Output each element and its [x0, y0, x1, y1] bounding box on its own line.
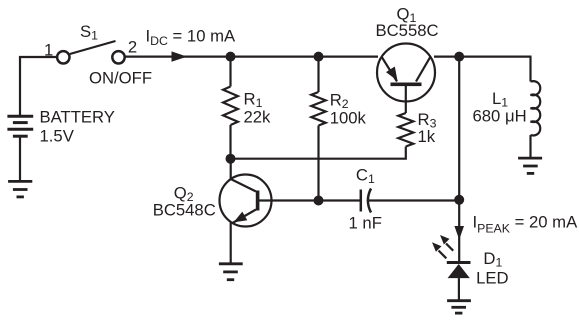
wire switch to top rail / Q1 left	[126, 55, 379, 57]
wire top rail Q1 right to L1 corner	[434, 55, 532, 57]
node dot R1-Q2	[226, 154, 236, 164]
wire LED to ground	[458, 278, 460, 301]
node dot LED branch	[454, 195, 464, 205]
LED D1 cathode bar	[447, 261, 471, 264]
ground (L1)	[518, 158, 542, 173]
battery B1	[7, 116, 33, 136]
svg-text:1k: 1k	[418, 127, 436, 146]
resistor R1	[229, 57, 231, 87]
transistor Q2 (NPN BC548C)	[230, 159, 232, 180]
svg-text:ON/OFF: ON/OFF	[89, 69, 152, 88]
wire LED branch to LED	[458, 200, 460, 261]
svg-text:IPEAK = 20 mA: IPEAK = 20 mA	[473, 213, 579, 236]
svg-text:LED: LED	[476, 268, 508, 287]
svg-text:1.5V: 1.5V	[40, 127, 75, 146]
wire battery-top to switch terminal 1	[20, 57, 57, 116]
node dot rail-LED branch	[454, 52, 464, 62]
node dot rail-R1	[226, 52, 236, 62]
current arrow IPEAK	[454, 226, 464, 240]
LED D1 triangle	[448, 264, 470, 278]
svg-text:100k: 100k	[330, 109, 367, 128]
capacitor C1	[360, 190, 363, 212]
transistor Q1 (PNP BC558C)	[377, 44, 435, 102]
wire LED branch vertical	[458, 57, 460, 200]
ground (Q2)	[219, 264, 243, 280]
LED emission arrow 2	[439, 251, 447, 259]
svg-text:BC548C: BC548C	[153, 201, 216, 220]
svg-text:22k: 22k	[244, 107, 272, 126]
svg-text:BATTERY: BATTERY	[40, 108, 115, 127]
switch S1 terminal 1	[57, 51, 69, 63]
resistor R3	[398, 113, 413, 147]
inductor L1	[531, 81, 541, 135]
wire Q2 base to C1	[259, 199, 361, 201]
wire battery-bottom to ground	[19, 136, 21, 181]
svg-text:D1: D1	[483, 249, 502, 270]
svg-text:C1: C1	[356, 166, 375, 187]
wire Q2 emitter to ground	[230, 223, 232, 264]
node dot R2-base	[314, 196, 324, 206]
resistor R2	[317, 57, 319, 92]
switch S1 lever	[70, 41, 116, 54]
wire L1 bottom to ground	[529, 135, 531, 158]
current arrow IDC	[172, 51, 188, 61]
wire L1 top	[529, 57, 531, 82]
svg-text:IDC = 10 mA: IDC = 10 mA	[146, 27, 237, 48]
svg-text:680 μH: 680 μH	[473, 107, 527, 126]
ground (LED)	[447, 301, 471, 313]
node dot rail-R2	[314, 52, 324, 62]
switch S1 terminal 2	[112, 51, 124, 63]
svg-text:S1: S1	[80, 22, 98, 43]
wire C1 to LED branch	[369, 199, 459, 201]
LED emission arrow 1	[446, 244, 453, 251]
svg-text:BC558C: BC558C	[376, 21, 439, 40]
svg-text:1 nF: 1 nF	[349, 214, 382, 233]
wire R3 bottom to feedback rail	[231, 147, 406, 159]
svg-text:1: 1	[44, 40, 53, 59]
ground (battery)	[8, 181, 32, 197]
svg-text:2: 2	[128, 37, 137, 56]
